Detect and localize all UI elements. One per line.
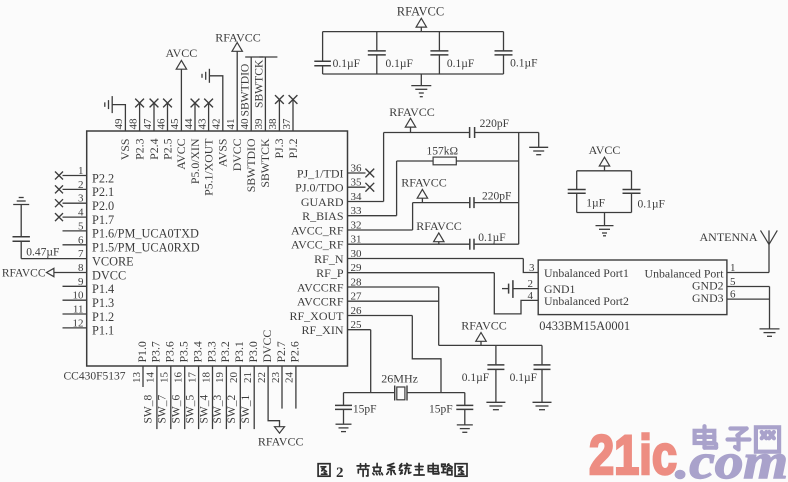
node vertical (220pF/157k/220pF/0.1uF common): [518, 133, 520, 245]
net SW_7 (pin 15): [157, 395, 169, 424]
svg-text:SW_3: SW_3: [212, 395, 224, 424]
svg-text:P3.2: P3.2: [218, 341, 232, 362]
pin 47 P2.4 (top): [142, 99, 161, 160]
pin 39 SBWTCK (top): [253, 57, 277, 188]
svg-text:PJ.2: PJ.2: [286, 138, 300, 158]
svg-text:P1.5/PM_UCA0RXD: P1.5/PM_UCA0RXD: [92, 241, 200, 255]
net SW_4 (pin 18): [198, 395, 210, 424]
pin 8 DVCC (left): [54, 262, 126, 282]
svg-text:AVCCRF: AVCCRF: [297, 295, 344, 309]
wire RF_P (pin 29) to balun pin 4: [494, 273, 538, 314]
ground (above C1, pointing up): [13, 198, 29, 205]
net SBWTDIO (pin 40 wire label): [238, 64, 251, 117]
pin 34 GUARD (right): [301, 191, 384, 209]
svg-text:P3.1: P3.1: [232, 341, 246, 362]
capacitor C5 0.1uF (right edge): [495, 32, 538, 74]
wire R_BIAS (pin 33) riser: [397, 161, 434, 216]
svg-text:18: 18: [200, 372, 212, 384]
svg-text:R_BIAS: R_BIAS: [302, 209, 343, 223]
pin 45 AVCC (top): [169, 69, 188, 170]
pin 20 P3.1 (bottom): [228, 341, 246, 429]
pin 19 P3.2 (bottom): [214, 341, 232, 429]
balun U2 0433BM15A0001: [538, 260, 727, 333]
balun pin 6 number + stub: [727, 289, 770, 301]
watermark dianziwang (purple): [695, 426, 780, 451]
svg-text:SBWTCK: SBWTCK: [258, 138, 272, 188]
svg-text:SBWTDIO: SBWTDIO: [238, 64, 251, 117]
svg-text:Unbalanced Port1: Unbalanced Port1: [544, 266, 629, 280]
svg-text:P3.5: P3.5: [177, 341, 191, 362]
svg-text:41: 41: [225, 119, 237, 130]
capacitor C12 0.1uF: [462, 345, 505, 402]
svg-text:220pF: 220pF: [482, 191, 511, 203]
svg-text:Unbalanced Port2: Unbalanced Port2: [544, 294, 629, 308]
svg-text:P3.6: P3.6: [163, 341, 177, 362]
svg-text:AVCC: AVCC: [174, 138, 188, 169]
label ANTENNA: [700, 230, 758, 244]
svg-text:49: 49: [113, 118, 125, 130]
ground (C12): [486, 402, 505, 409]
svg-text:P2.0: P2.0: [92, 199, 114, 213]
svg-text:37: 37: [281, 118, 293, 130]
svg-text:0.1µF: 0.1µF: [510, 58, 537, 70]
balun pin 1 number + stub: [727, 262, 769, 274]
svg-text:SW_7: SW_7: [157, 395, 169, 424]
power RFAVCC (top bank): [397, 4, 444, 31]
capacitor C4 0.1uF: [430, 32, 474, 74]
ground (balun): [760, 329, 780, 336]
ground (top bank): [411, 74, 431, 97]
wire RF_N (pin 30) to balun pin 3: [523, 259, 538, 273]
svg-text:P2.1: P2.1: [92, 185, 114, 199]
pin 22 DVCC (bottom): [256, 330, 280, 427]
pin 15 P3.6 (bottom): [159, 341, 177, 429]
svg-text:ANTENNA: ANTENNA: [700, 230, 758, 244]
crystal Y1 26MHz: [381, 371, 418, 400]
svg-text:P2.7: P2.7: [274, 341, 288, 362]
pin 26 RF_XOUT (right): [289, 305, 412, 323]
svg-text:21: 21: [242, 372, 254, 383]
svg-text:RFAVCC: RFAVCC: [416, 219, 462, 233]
capacitor C13 0.1uF: [510, 345, 551, 402]
power flag RFAVCC (pin 8 DVCC): [2, 267, 54, 279]
svg-text:VSS: VSS: [118, 139, 132, 161]
capacitor C7 220pF: [470, 191, 519, 209]
svg-text:2: 2: [336, 465, 344, 481]
watermark .com (purple script): [675, 433, 788, 482]
pin 31 AVCC_RF (right): [291, 234, 519, 252]
svg-text:45: 45: [169, 118, 181, 130]
svg-text:PJ_1/TDI: PJ_1/TDI: [297, 166, 344, 180]
svg-text:P1.4: P1.4: [92, 282, 114, 296]
pin 32 AVCC_RF (right): [291, 220, 413, 238]
svg-text:P3.3: P3.3: [204, 341, 218, 362]
power RFAVCC (pin 31 row): [416, 219, 462, 244]
svg-text:AVSS: AVSS: [216, 139, 230, 168]
balun pin 2 number: [528, 278, 534, 290]
svg-text:P3.4: P3.4: [190, 341, 204, 362]
ground (C14): [336, 424, 352, 431]
antenna symbol + wire: [761, 230, 778, 272]
svg-text:SBWTCK: SBWTCK: [253, 59, 266, 108]
capacitor C10 1uF: [568, 171, 605, 213]
svg-text:P1.2: P1.2: [92, 310, 114, 324]
svg-text:P5.1/XOUT: P5.1/XOUT: [201, 138, 215, 196]
wire GND2/GND3 to ground: [769, 287, 771, 329]
pin 44 P5.0/XIN (top): [183, 99, 202, 184]
svg-text:0.1µF: 0.1µF: [333, 58, 360, 70]
svg-text:P2.6: P2.6: [288, 341, 302, 362]
svg-text:4: 4: [528, 290, 534, 302]
pin 3 P2.0 (left): [55, 193, 114, 213]
svg-text:RF_P: RF_P: [316, 266, 344, 280]
wire AVCC block top/bottom bus: [577, 171, 632, 213]
svg-text:RFAVCC: RFAVCC: [2, 267, 46, 279]
svg-text:CC430F5137: CC430F5137: [64, 371, 126, 383]
svg-text:P5.0/XIN: P5.0/XIN: [188, 138, 202, 184]
wire crystal row: [344, 392, 465, 394]
wire top bank bus (RFAVCC): [323, 32, 504, 74]
pin 7 VCORE (left): [21, 248, 133, 268]
svg-text:GND3: GND3: [692, 291, 724, 305]
ground (C6 right): [529, 133, 548, 155]
pin 10 P1.3 (left): [63, 290, 115, 310]
svg-text:0.1µF: 0.1µF: [638, 199, 665, 211]
svg-text:44: 44: [183, 118, 195, 130]
power RFAVCC (pin 22 DVCC, down arrow): [258, 427, 304, 449]
svg-text:220pF: 220pF: [480, 118, 509, 130]
svg-text:23: 23: [270, 372, 282, 384]
svg-text:0.1µF: 0.1µF: [447, 58, 474, 70]
svg-text:RFAVCC: RFAVCC: [258, 435, 304, 449]
svg-text:P1.6/PM_UCA0TXD: P1.6/PM_UCA0TXD: [92, 227, 199, 241]
capacitor C8 0.1uF: [470, 232, 506, 250]
svg-text:VCORE: VCORE: [92, 254, 134, 268]
svg-text:DVCC: DVCC: [260, 330, 274, 363]
svg-text:0.47µF: 0.47µF: [26, 246, 59, 258]
net SW_1 (pin 21): [240, 395, 252, 424]
svg-text:14: 14: [145, 372, 157, 384]
svg-text:0.1µF: 0.1µF: [510, 372, 537, 384]
svg-text:AVCCRF: AVCCRF: [297, 280, 344, 294]
svg-text:P2.2: P2.2: [92, 171, 114, 185]
wire GUARD (pin 34) riser: [384, 133, 470, 202]
IC U1 CC430F5137 body: [64, 131, 348, 383]
svg-text:RFAVCC: RFAVCC: [401, 176, 447, 190]
resistor R1 157kOhm: [427, 145, 519, 165]
svg-text:P2.5: P2.5: [160, 138, 174, 159]
svg-text:DVCC: DVCC: [92, 268, 126, 282]
svg-text:SW_5: SW_5: [184, 395, 196, 424]
pin 6 P1.5/PM_UCA0RXD (left): [63, 234, 200, 254]
capacitor C9 (GND1 series): [502, 280, 538, 298]
wire AVCCRF (pins 27/28) riser to RFAVCC bus: [439, 287, 542, 345]
capacitor C14 15pF (left): [335, 393, 377, 424]
svg-text:AVCC_RF: AVCC_RF: [291, 238, 344, 252]
svg-text:P3.0: P3.0: [246, 341, 260, 362]
svg-text:SBWTDIO: SBWTDIO: [244, 138, 258, 192]
pin 27 AVCCRF (right): [297, 291, 439, 309]
pin 18 P3.3 (bottom): [200, 341, 218, 429]
power RFAVCC (bottom bus): [461, 318, 507, 345]
svg-text:RF_XIN: RF_XIN: [301, 323, 343, 337]
pin 1 P2.2 (left): [55, 165, 114, 185]
pin 21 P3.0 (bottom): [242, 341, 260, 429]
svg-text:SW_1: SW_1: [240, 395, 252, 424]
ground (AVCC block): [596, 213, 614, 236]
svg-text:AVCC: AVCC: [166, 46, 198, 60]
svg-text:20: 20: [228, 372, 240, 384]
svg-text:RFAVCC: RFAVCC: [389, 105, 435, 119]
svg-text:P1.3: P1.3: [92, 296, 114, 310]
capacitor C11 0.1uF: [623, 171, 665, 213]
net SW_2 (pin 20): [226, 395, 238, 424]
svg-text:157kΩ: 157kΩ: [427, 145, 459, 157]
net SW_8 (pin 14): [143, 395, 155, 424]
svg-text:RFAVCC: RFAVCC: [215, 30, 261, 44]
svg-text:RF_N: RF_N: [314, 252, 344, 266]
svg-text:P2.3: P2.3: [132, 138, 146, 159]
balun pin 4 number: [528, 290, 534, 302]
pin 36 PJ_1/TDI (right): [297, 163, 374, 181]
pin 12 P1.1 (left): [63, 317, 115, 337]
svg-text:38: 38: [267, 118, 279, 130]
svg-text:0433BM15A0001: 0433BM15A0001: [539, 319, 630, 333]
svg-text:AVCC: AVCC: [589, 143, 621, 157]
svg-text:3: 3: [529, 262, 535, 274]
pin 48 P2.3 (top): [127, 99, 146, 160]
watermark 21ic. (red): [589, 423, 677, 482]
svg-text:RFAVCC: RFAVCC: [397, 4, 444, 18]
svg-text:48: 48: [127, 118, 139, 130]
svg-text:15: 15: [159, 372, 171, 384]
power AVCC (right block): [589, 143, 621, 171]
svg-text:39: 39: [253, 118, 265, 130]
svg-text:GUARD: GUARD: [301, 195, 344, 209]
ground (pin 42, rotated): [202, 69, 209, 83]
svg-text:P1.7: P1.7: [92, 213, 114, 227]
capacitor C1 0.47uF (VCORE): [13, 205, 60, 259]
svg-text:16: 16: [173, 372, 185, 384]
svg-text:SW_4: SW_4: [198, 395, 210, 424]
svg-text:40: 40: [239, 118, 251, 130]
pin 11 P1.2 (left): [63, 304, 115, 324]
power RFAVCC (GUARD row): [389, 105, 435, 132]
svg-text:P2.4: P2.4: [147, 138, 161, 159]
svg-text:0.1µF: 0.1µF: [386, 58, 413, 70]
pin 41 DVCC (top): [225, 51, 244, 171]
pin 46 P2.5 (top): [155, 99, 174, 160]
balun pin 5 number + stub: [727, 276, 770, 288]
pin 5 P1.6/PM_UCA0TXD (left): [63, 220, 200, 240]
pin 49 VSS (top): [112, 105, 132, 161]
svg-text:43: 43: [196, 118, 208, 130]
svg-text:RFAVCC: RFAVCC: [461, 318, 507, 332]
balun pin 3 number: [529, 262, 535, 274]
pin 2 P2.1 (left): [55, 179, 114, 199]
caption: Fig 2 node system main circuit diagram: [318, 463, 467, 480]
pin 23 P2.7 (bottom): [270, 341, 288, 409]
pin 33 R_BIAS (right): [302, 205, 396, 223]
net SBWTCK (pin 39 wire label): [253, 59, 266, 108]
svg-text:P1.0: P1.0: [135, 341, 149, 362]
pin 17 P3.4 (bottom): [186, 341, 204, 429]
svg-text:42: 42: [211, 119, 223, 130]
svg-text:17: 17: [186, 372, 198, 384]
pin 37 PJ.2 (top): [281, 95, 300, 158]
pin 35 PJ.0/TDO (right): [295, 177, 374, 195]
svg-text:0.1µF: 0.1µF: [478, 232, 505, 244]
pin 13 P1.0 (bottom): [131, 341, 149, 387]
pin 4 P1.7 (left): [55, 207, 114, 227]
svg-text:AVCC_RF: AVCC_RF: [291, 223, 344, 237]
pin 38 PJ.3 (top): [267, 95, 286, 158]
net SW_5 (pin 17): [184, 395, 196, 424]
pin 16 P3.5 (bottom): [173, 341, 191, 429]
pin 29 RF_P (right): [316, 262, 494, 280]
svg-text:RF_XOUT: RF_XOUT: [289, 309, 344, 323]
svg-text:SW_2: SW_2: [226, 395, 238, 424]
svg-text:26MHz: 26MHz: [381, 371, 418, 385]
svg-text:.com: .com: [675, 433, 788, 482]
ground (C13): [533, 402, 552, 409]
svg-text:21ic: 21ic: [589, 423, 677, 482]
svg-text:24: 24: [284, 372, 296, 384]
capacitor C15 15pF (right): [429, 393, 473, 425]
pin 30 RF_N (right): [314, 248, 523, 266]
svg-text:2: 2: [528, 278, 534, 290]
capacitor C2 0.1uF (left edge): [314, 32, 360, 74]
power AVCC (pin 45): [166, 46, 198, 69]
svg-text:46: 46: [155, 118, 167, 130]
pin 43 P5.1/XOUT (top): [196, 99, 215, 196]
svg-text:15pF: 15pF: [429, 404, 453, 416]
pin 40 SBWTDIO (top): [239, 57, 263, 192]
svg-text:PJ.0/TDO: PJ.0/TDO: [295, 181, 344, 195]
svg-text:47: 47: [142, 118, 154, 130]
wire AVCC_RF (pin 32) riser: [413, 203, 470, 230]
svg-text:0.1µF: 0.1µF: [462, 372, 489, 384]
pin 42 AVSS (top): [209, 76, 229, 167]
pin 28 AVCCRF (right): [297, 277, 439, 295]
pin 14 P3.7 (bottom): [145, 341, 163, 429]
power RFAVCC (pin 41): [215, 30, 261, 51]
net SW_6 (pin 16): [171, 395, 183, 424]
svg-text:SW_6: SW_6: [171, 395, 183, 424]
svg-text:DVCC: DVCC: [230, 138, 244, 171]
capacitor C3 0.1uF: [368, 32, 413, 74]
power RFAVCC (AVCC_RF row): [401, 176, 447, 203]
svg-text:1µF: 1µF: [586, 197, 605, 209]
pin 24 P2.6 (bottom): [284, 341, 302, 409]
svg-text:SW_8: SW_8: [143, 395, 155, 424]
svg-text:P1.1: P1.1: [92, 324, 114, 338]
wire RF_XOUT (pin 26) route: [412, 316, 441, 393]
ground (C15): [457, 425, 473, 432]
svg-text:19: 19: [214, 372, 226, 384]
svg-text:P3.7: P3.7: [149, 341, 163, 362]
svg-text:15pF: 15pF: [353, 404, 377, 416]
net SW_3 (pin 19): [212, 395, 224, 424]
pin 9 P1.4 (left): [63, 276, 115, 296]
wire RF_XIN (pin 25) route: [370, 330, 372, 393]
capacitor C6 220pF: [470, 118, 539, 138]
svg-text:PJ.3: PJ.3: [272, 138, 286, 158]
pin 25 RF_XIN (right): [301, 319, 370, 337]
svg-text:22: 22: [256, 372, 268, 383]
svg-text:13: 13: [131, 372, 143, 384]
ground (pin 49, rotated): [105, 96, 112, 113]
